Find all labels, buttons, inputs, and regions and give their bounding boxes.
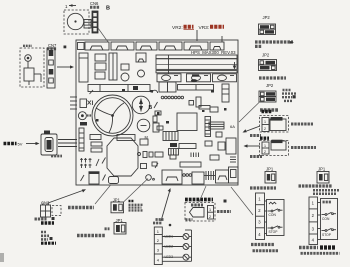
label 1= bbox=[65, 4, 76, 9]
connector CN1 row (top edge) bbox=[78, 42, 225, 50]
wire to board bbox=[95, 185, 111, 205]
power plug P1 (outside left) bbox=[41, 131, 57, 156]
capacitor block C3 bbox=[95, 72, 105, 79]
jumper JP2 position 1 bbox=[259, 24, 276, 35]
dashed box bbox=[52, 206, 61, 216]
label alarm output bbox=[217, 210, 231, 213]
note lines bbox=[41, 231, 46, 234]
IC U2 bbox=[109, 53, 117, 80]
label shutter mode bbox=[299, 184, 333, 187]
label standard mode bbox=[260, 108, 278, 111]
svg-text:2: 2 bbox=[264, 150, 266, 154]
dashed enclosure bbox=[260, 116, 289, 133]
svg-text:2: 2 bbox=[209, 215, 211, 219]
switch box bbox=[267, 200, 285, 236]
svg-text:JP1: JP1 bbox=[318, 167, 326, 172]
wire VR2 pointer bbox=[196, 30, 198, 41]
resistor R4 bbox=[91, 148, 102, 152]
wire to board bbox=[199, 186, 206, 202]
resistor R8 (long) bbox=[178, 85, 214, 91]
svg-text:6A: 6A bbox=[230, 124, 235, 129]
IC U5 bbox=[205, 117, 211, 137]
common bus bbox=[162, 220, 192, 262]
capacitor C4 bbox=[121, 73, 129, 81]
jumper JP1d bbox=[317, 172, 329, 184]
resistor R6 bbox=[179, 144, 196, 149]
svg-text:2: 2 bbox=[264, 127, 266, 131]
buzzer BZ1 (large circle with spokes) bbox=[92, 95, 133, 136]
label below 2 bbox=[301, 252, 340, 255]
IC U7 bbox=[222, 84, 229, 102]
wire to JP2-3 bbox=[239, 103, 259, 123]
connector bbox=[262, 142, 269, 154]
label connector board bbox=[250, 186, 276, 189]
resistor R7 bbox=[180, 162, 201, 167]
capacitor block C1 bbox=[95, 54, 106, 61]
IC U1 (tall left) bbox=[79, 53, 88, 82]
label V=2 bbox=[250, 134, 261, 137]
wire to board bbox=[231, 187, 253, 215]
label V=xx bbox=[35, 218, 47, 221]
svg-text:VR3:: VR3: bbox=[199, 25, 210, 31]
wire to board bbox=[98, 28, 108, 42]
test pads bbox=[161, 96, 183, 99]
misc small parts bbox=[152, 107, 225, 168]
switch S1 bbox=[23, 46, 41, 85]
label below 1 bbox=[251, 243, 274, 246]
svg-text:CON: CON bbox=[269, 213, 277, 217]
resistor R3 bbox=[91, 142, 102, 146]
capacitor C6 bbox=[137, 119, 159, 139]
label below 2 bbox=[253, 249, 279, 252]
capacitor C8 bbox=[109, 177, 119, 184]
svg-text:STOP: STOP bbox=[269, 230, 279, 234]
IC U3 (hatched) bbox=[79, 128, 84, 151]
label laser mode bbox=[77, 234, 105, 237]
svg-text:1: 1 bbox=[264, 144, 266, 148]
jumper JP1c bbox=[265, 172, 276, 184]
svg-text:CON: CON bbox=[322, 217, 330, 221]
connector CN10 (bottom edge) bbox=[192, 172, 204, 184]
label 基板DC5V bbox=[4, 142, 17, 146]
IC U6 bbox=[226, 138, 236, 154]
sensor body bbox=[190, 208, 205, 218]
capacitor pair C10 C11 bbox=[159, 82, 168, 92]
LED3 bbox=[162, 254, 191, 260]
plug ladder bbox=[84, 20, 91, 29]
label below bold bbox=[299, 246, 318, 249]
main PCB board outline bbox=[76, 40, 238, 185]
connector CN2 (bottom-left on edge) bbox=[89, 171, 100, 184]
dashed enclosure bbox=[20, 48, 44, 87]
capacitor C5 bbox=[138, 70, 145, 77]
resistor array RA1 (long bar) bbox=[88, 85, 158, 94]
svg-text:CN7: CN7 bbox=[48, 43, 57, 48]
connector table CN bbox=[256, 193, 265, 240]
label CN4 bbox=[156, 218, 164, 221]
resistor R5 bbox=[170, 143, 177, 147]
label V=2 bbox=[250, 155, 262, 158]
smudge bottom left bbox=[0, 253, 4, 262]
jumper JP1 bbox=[111, 202, 124, 213]
dashed enclosure bbox=[260, 141, 289, 156]
wire to board bbox=[48, 189, 86, 203]
relay module bbox=[271, 140, 286, 150]
jumper pin rows bbox=[204, 171, 215, 180]
svg-text:HPS_MAX300_REV.03: HPS_MAX300_REV.03 bbox=[191, 50, 236, 55]
relay K1 bbox=[136, 53, 146, 62]
connector fingers (left edge mid) bbox=[58, 140, 77, 147]
note bold line bbox=[185, 198, 213, 202]
svg-text:JP2: JP2 bbox=[262, 53, 270, 58]
IC U4 (big square) bbox=[177, 113, 197, 131]
relay module bbox=[270, 117, 286, 131]
wires table to box bbox=[318, 203, 321, 240]
note lines right bbox=[129, 200, 134, 203]
label F=green bbox=[41, 221, 54, 224]
jumper JP2 position 3 bbox=[259, 91, 276, 102]
label NEC relay unit 2 bbox=[291, 146, 316, 149]
dashed enclosure bbox=[185, 203, 215, 222]
jumper JP2 position 2 bbox=[259, 60, 277, 71]
resistor R9 bbox=[189, 101, 194, 106]
connector CN9 (bottom edge) bbox=[162, 170, 182, 184]
resistor R2 bbox=[90, 135, 101, 140]
wires table to box bbox=[265, 201, 267, 234]
connector table CN bbox=[309, 197, 318, 245]
LED1 bbox=[162, 234, 191, 240]
connector CN7 strip bbox=[47, 48, 55, 88]
connector 2pin bbox=[208, 206, 214, 220]
note line 2 bbox=[191, 204, 203, 207]
wire arrow to board bbox=[243, 126, 261, 133]
connector CN11 (bottom right corner) bbox=[216, 167, 239, 183]
capacitor block C2 bbox=[95, 63, 106, 70]
svg-text:1: 1 bbox=[264, 120, 266, 124]
svg-text:JP2: JP2 bbox=[263, 15, 271, 20]
connector bars (right upper) bbox=[156, 55, 237, 82]
note text (4 lines) bbox=[283, 89, 292, 91]
svg-text:CN6: CN6 bbox=[90, 1, 99, 6]
resistor R1 bbox=[121, 64, 129, 70]
label V=30 bbox=[47, 47, 57, 50]
svg-text:B: B bbox=[149, 105, 153, 111]
jumper JP1b bbox=[114, 223, 126, 235]
resistor network RN2 bbox=[163, 132, 178, 141]
connector CN6 strip bbox=[92, 11, 98, 33]
svg-text:5V: 5V bbox=[18, 142, 23, 147]
stray mark bbox=[290, 41, 294, 44]
varistor D1 (circle with pointer) bbox=[132, 96, 150, 114]
capacitor C9 bbox=[146, 175, 152, 181]
connector bbox=[262, 118, 269, 132]
solder pads and small marks bbox=[96, 89, 227, 124]
capacitors C7 group bbox=[78, 90, 105, 181]
wire JP1 to C9 bbox=[124, 179, 149, 203]
label main switch bbox=[68, 206, 94, 209]
label CN5 bbox=[262, 110, 272, 113]
motor M1 (circle) bbox=[67, 13, 83, 29]
label V=30 bbox=[90, 6, 100, 9]
svg-text:JP1: JP1 bbox=[266, 167, 274, 172]
wire arrow to board bbox=[161, 188, 171, 221]
transformer T1 (octagon) bbox=[107, 135, 138, 177]
wire arrow to P1 bbox=[26, 142, 40, 145]
svg-text:JP2: JP2 bbox=[266, 83, 274, 88]
svg-text:B: B bbox=[106, 6, 110, 12]
LED2 bbox=[162, 244, 191, 250]
VR2 / VR3 title bbox=[172, 25, 224, 31]
connector CN3 bbox=[41, 203, 51, 218]
wire arrow to board bbox=[244, 144, 261, 147]
wire arrow to board bbox=[57, 65, 74, 68]
label dot bbox=[64, 46, 67, 49]
resistor network RN1 bbox=[209, 122, 224, 129]
label CN8 bbox=[260, 136, 269, 139]
svg-text:VR2:: VR2: bbox=[172, 25, 183, 31]
svg-text:1: 1 bbox=[209, 208, 211, 212]
pads 666 bbox=[183, 174, 192, 177]
label NEC relay unit bbox=[291, 123, 313, 126]
label hold mode bbox=[259, 76, 286, 79]
label normal linear mode bbox=[255, 40, 293, 43]
svg-text:STOP: STOP bbox=[322, 233, 332, 237]
connector fingers (left edge upper) bbox=[70, 97, 77, 109]
connector table CN4 bbox=[154, 227, 162, 265]
dashed enclosure bbox=[64, 10, 89, 34]
switch box bbox=[321, 199, 338, 240]
